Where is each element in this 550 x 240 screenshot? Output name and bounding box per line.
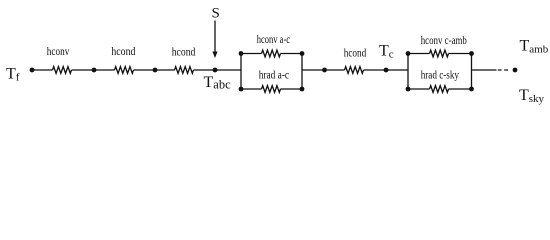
svg-text:hcond: hcond	[111, 46, 135, 58]
svg-text:hrad c-sky: hrad c-sky	[421, 69, 460, 81]
node between R2 R3	[153, 68, 158, 73]
svg-text:hrad a-c: hrad a-c	[259, 69, 289, 81]
block2 top branch right wire	[449, 53, 472, 55]
node after block1	[322, 68, 327, 73]
junction block1 bottom-left	[239, 87, 244, 92]
wire R2 to R3	[134, 69, 175, 71]
node between R1 R2	[92, 68, 97, 73]
resistor hrad a-c	[262, 86, 281, 93]
junction block1 top-right	[300, 51, 305, 56]
block2 bottom branch right wire	[449, 88, 472, 90]
arrow S shaft	[214, 21, 216, 53]
resistor hcond R3	[175, 67, 194, 74]
resistor hrad c-sky	[430, 86, 449, 93]
wire block2 to terminal (solid part)	[472, 69, 497, 71]
node Tabc	[213, 68, 218, 73]
wire block1 to R4	[302, 69, 345, 71]
wire R4 to Tc node and block2 left bar	[364, 69, 409, 71]
terminal node right	[513, 68, 518, 73]
block2 left bar	[407, 54, 409, 90]
svg-text:S: S	[212, 6, 220, 22]
svg-text:hconv c-amb: hconv c-amb	[421, 35, 467, 47]
svg-text:hconv: hconv	[47, 46, 70, 58]
block2 bottom branch left wire	[408, 88, 430, 90]
block2 top branch left wire	[408, 53, 430, 55]
junction block2 bottom-left	[406, 87, 411, 92]
wire R1 to node	[72, 69, 115, 71]
junction block1 top-left	[239, 51, 244, 56]
block1 left bar	[240, 54, 242, 90]
resistor hconv R1	[53, 67, 72, 74]
resistor hcond R2	[115, 67, 134, 74]
resistor hcond R4	[345, 67, 364, 74]
svg-text:Tsky: Tsky	[519, 87, 545, 105]
svg-text:Tf: Tf	[6, 66, 20, 84]
junction block1 bottom-right	[300, 87, 305, 92]
svg-text:hconv a-c: hconv a-c	[257, 34, 290, 46]
svg-text:Tabc: Tabc	[204, 74, 232, 92]
svg-text:hcond: hcond	[344, 48, 367, 60]
resistor hconv a-c	[262, 50, 281, 57]
wire Tf to R1	[32, 69, 53, 71]
wire dashed part	[498, 69, 508, 71]
svg-text:Tamb: Tamb	[520, 38, 549, 56]
svg-text:Tc: Tc	[379, 43, 394, 61]
block2 right bar	[471, 54, 473, 90]
arrow S head	[212, 52, 217, 59]
junction block2 top-right	[469, 51, 474, 56]
block1 bottom branch right wire	[281, 88, 303, 90]
node Tc	[384, 68, 389, 73]
block1 bottom branch left wire	[241, 88, 262, 90]
block1 right bar	[301, 54, 303, 90]
block1 top branch left wire	[241, 53, 262, 55]
block1 top branch right wire	[281, 53, 303, 55]
svg-text:hcond: hcond	[172, 46, 196, 58]
node Tf	[30, 68, 35, 73]
junction block2 bottom-right	[469, 87, 474, 92]
resistor hconv c-amb	[430, 50, 449, 57]
wire R3 to Tabc node and block1 left bar	[194, 69, 242, 71]
junction block2 top-left	[406, 51, 411, 56]
